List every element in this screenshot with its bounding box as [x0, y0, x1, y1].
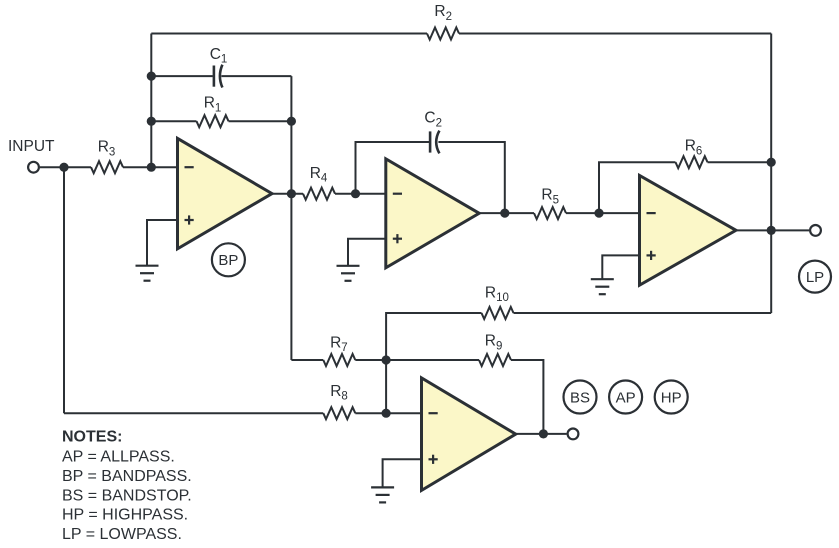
- wire: node C vertical (BP output): [290, 76, 292, 360]
- svg-text:BS: BS: [570, 389, 590, 406]
- resistor R2: [427, 3, 459, 39]
- wire: node B to R1: [151, 120, 196, 122]
- op-amp U3: [640, 175, 737, 285]
- resistor R7: [323, 334, 355, 366]
- LP output terminal: [810, 225, 821, 236]
- wire: feedback vertical at node B: [150, 34, 152, 168]
- wire: U2 output to R5: [479, 212, 534, 214]
- junction: U2 output node: [500, 209, 509, 218]
- svg-text:AP = ALLPASS.: AP = ALLPASS.: [62, 448, 175, 465]
- wire: top rail to R2: [151, 33, 427, 35]
- wire: R2 to right rail: [459, 33, 771, 35]
- input terminal: [28, 162, 39, 173]
- wire: C2 to U2 output node: [438, 142, 504, 213]
- svg-text:NOTES:: NOTES:: [62, 429, 122, 446]
- junction: node D at R7: [382, 355, 391, 364]
- resistor R8: [323, 383, 355, 419]
- svg-text:HP = HIGHPASS.: HP = HIGHPASS.: [62, 506, 188, 523]
- ground: [337, 239, 386, 281]
- ground: [371, 459, 421, 502]
- op-amp U1: [178, 138, 273, 248]
- wire: R5 to U3 inverting input: [566, 212, 640, 214]
- wire: R8 to U4 inverting input: [355, 412, 421, 414]
- label circle LP: [799, 261, 831, 293]
- junction: right rail at R6: [767, 158, 776, 167]
- wire: C2 left branch: [356, 142, 430, 194]
- junction: C2 left tap: [351, 189, 360, 198]
- wire: node B to C1: [151, 75, 213, 77]
- wire: R10 to node D: [386, 313, 481, 413]
- svg-text:LP = LOWPASS.: LP = LOWPASS.: [62, 526, 182, 543]
- junction: R6 tap: [594, 209, 603, 218]
- junction: node B at input line: [147, 163, 156, 172]
- resistor R6: [676, 138, 708, 169]
- resistor R10: [482, 284, 514, 319]
- wire: R4 to U2 inverting input: [335, 193, 386, 195]
- wire: U3 output to LP terminal: [736, 229, 809, 231]
- label circle AP: [609, 381, 642, 414]
- svg-text:HP: HP: [661, 389, 682, 406]
- wire: R3 to U1 inverting input: [123, 166, 178, 168]
- svg-text:INPUT: INPUT: [8, 138, 55, 155]
- junction: U4 output node: [539, 429, 548, 438]
- svg-text:AP: AP: [616, 389, 636, 406]
- wire: right rail to R10: [514, 312, 772, 314]
- wire: right rail vertical: [770, 34, 772, 314]
- wire: U4 output to terminal: [516, 433, 567, 435]
- wire: R9 to output branch: [511, 360, 543, 434]
- multi-function output terminal: [568, 429, 579, 440]
- svg-text:BS = BANDSTOP.: BS = BANDSTOP.: [62, 487, 192, 504]
- wire: R6 to right rail: [708, 161, 772, 163]
- wire: node C to R7: [291, 359, 323, 361]
- wire: input to R3: [40, 166, 91, 168]
- ground: [591, 255, 640, 294]
- ground: [136, 220, 178, 281]
- resistor R9: [479, 333, 511, 367]
- junction: LP output node: [767, 226, 776, 235]
- resistor R4: [303, 165, 335, 200]
- junction: node B at R1: [147, 117, 156, 126]
- wire: R8 line from input branch: [64, 412, 323, 414]
- resistor R5: [534, 187, 566, 220]
- resistor R3: [91, 139, 123, 174]
- capacitor C1: [210, 46, 228, 88]
- capacitor C2: [424, 110, 442, 154]
- wire: R6 left branch: [599, 162, 676, 213]
- junction: node C at R1: [287, 117, 296, 126]
- label circle BS: [564, 381, 597, 414]
- wire: U1 output to R4: [272, 193, 303, 195]
- junction: U1 output node: [287, 189, 296, 198]
- op-amp U4: [422, 378, 516, 491]
- svg-text:BP = BANDPASS.: BP = BANDPASS.: [62, 468, 192, 485]
- notes text block: [62, 429, 192, 543]
- op-amp U2: [386, 159, 479, 268]
- junction: node D at R8: [382, 409, 391, 418]
- wire: C1 to node C: [221, 75, 291, 77]
- junction: input node: [59, 163, 68, 172]
- wire: input node down to R8 line: [63, 167, 65, 413]
- label circle HP: [655, 381, 688, 414]
- resistor R1: [197, 95, 229, 128]
- junction: node B at C1: [147, 72, 156, 81]
- wire: R1 to node C: [229, 120, 292, 122]
- svg-text:LP: LP: [806, 269, 824, 286]
- wire: R7 to R9: [355, 359, 479, 361]
- svg-text:BP: BP: [218, 252, 238, 269]
- label circle BP: [212, 243, 245, 276]
